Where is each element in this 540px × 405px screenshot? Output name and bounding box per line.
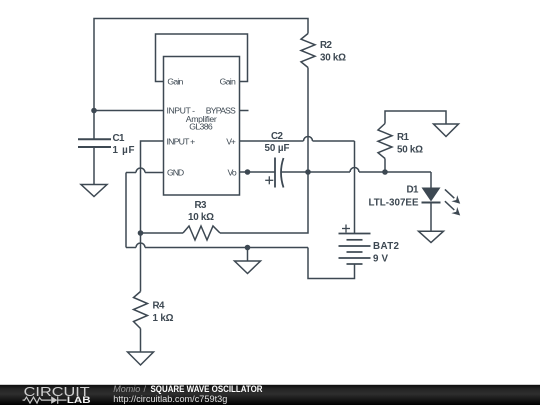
svg-text:R3: R3 — [195, 200, 208, 211]
label R1 — [397, 132, 423, 155]
svg-text:R4: R4 — [153, 301, 166, 312]
resistor R4 — [134, 292, 148, 329]
wire: GND net to battery minus — [126, 168, 355, 278]
svg-text:C2: C2 — [271, 131, 284, 142]
label C2 — [265, 131, 290, 154]
capacitor C1 — [78, 139, 111, 147]
capacitor C2 (polarized) — [275, 158, 284, 188]
svg-text:http://circuitlab.com/c759t3g: http://circuitlab.com/c759t3g — [113, 394, 227, 404]
label C1 — [113, 133, 135, 156]
svg-text:50 kΩ: 50 kΩ — [397, 144, 423, 155]
svg-text:50 µF: 50 µF — [265, 143, 290, 154]
battery BAT2 — [339, 234, 371, 265]
battery plus sign — [342, 225, 350, 233]
logo resistor-diode glyph — [23, 396, 67, 403]
svg-text:10 kΩ: 10 kΩ — [188, 212, 214, 223]
resistor R2 — [301, 34, 315, 68]
svg-text:Gain: Gain — [220, 76, 236, 86]
wire: V+ net to battery plus — [240, 137, 355, 234]
ground (below R4) — [128, 352, 154, 365]
svg-text:GL386: GL386 — [189, 122, 213, 132]
node junction dot R1 tap — [382, 169, 388, 175]
svg-text:D1: D1 — [407, 185, 420, 196]
svg-text:R1: R1 — [397, 132, 410, 143]
ground (mid rail) — [235, 261, 261, 274]
node junction dot at Vo pin — [245, 169, 251, 175]
svg-text:9 V: 9 V — [373, 253, 388, 264]
wire: Vo output net — [240, 168, 432, 188]
svg-text:30 kΩ: 30 kΩ — [320, 53, 346, 64]
label R2 — [320, 40, 346, 64]
svg-text:C1: C1 — [113, 133, 126, 144]
LED D1 — [422, 188, 441, 203]
node junction dot at R3 tap — [138, 230, 144, 236]
resistor R3 — [183, 226, 220, 240]
svg-text:LTL-307EE: LTL-307EE — [369, 198, 419, 209]
resistor R1 — [378, 124, 392, 159]
wire: LED cathode to ground — [430, 203, 432, 232]
svg-text:GND: GND — [167, 168, 184, 178]
label R3 — [188, 200, 214, 223]
wire: R3 leads — [141, 172, 309, 233]
svg-text:Momio: Momio — [113, 384, 140, 394]
wire: top feedback net from node A up over to R2 — [94, 19, 308, 140]
ground (below D1) — [419, 231, 444, 242]
label D1 — [369, 185, 420, 209]
svg-text:R2: R2 — [320, 40, 333, 51]
LED emission arrows — [445, 189, 460, 215]
svg-text:INPUT +: INPUT + — [167, 137, 196, 147]
node junction dot R2/R3 tap — [305, 169, 311, 175]
footer title line — [113, 384, 263, 394]
footer bar — [0, 385, 540, 405]
op-amp U1 GL386 body — [164, 57, 240, 196]
wire: gain bracket between Gain pins — [156, 34, 248, 82]
node junction dot on ground rail — [245, 245, 251, 251]
ground (top right) — [434, 124, 459, 137]
svg-text:V+: V+ — [226, 137, 236, 147]
pin stub BYPASS — [240, 110, 249, 112]
svg-text:BAT2: BAT2 — [373, 241, 400, 252]
ground (below C1) — [81, 185, 107, 197]
wire: INPUT+ net down to R4 — [141, 141, 164, 292]
svg-text:LAB: LAB — [67, 395, 91, 405]
svg-text:Vo: Vo — [228, 168, 237, 178]
svg-text:SQUARE WAVE OSCILLATOR: SQUARE WAVE OSCILLATOR — [151, 384, 263, 394]
wire: stem to mid ground — [247, 248, 249, 261]
label R4 — [153, 301, 174, 325]
wire: R1 leads and top to ground — [385, 111, 446, 172]
svg-text:1 kΩ: 1 kΩ — [153, 313, 174, 324]
label BAT2 — [373, 241, 400, 264]
wire: C1 to ground — [93, 148, 95, 184]
wire: R2 bottom to output node — [307, 68, 309, 173]
plus sign (C2) — [265, 176, 273, 184]
wire: R4 to ground — [140, 329, 142, 352]
node A junction dot — [91, 108, 97, 114]
svg-text:Gain: Gain — [167, 76, 183, 86]
svg-text:1 µF: 1 µF — [113, 145, 135, 156]
